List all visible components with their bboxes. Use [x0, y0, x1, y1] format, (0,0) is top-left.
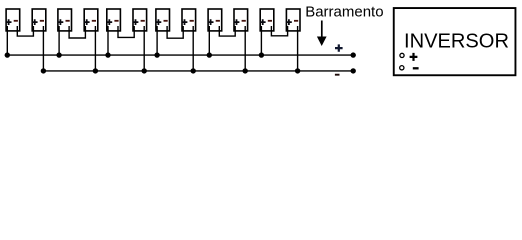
battery B4 [84, 9, 98, 31]
wire negative drop pair 6 [297, 26, 299, 71]
terminal circle - (inverter) [400, 66, 404, 70]
wire negative drop pair 5 [244, 26, 246, 71]
wire series link pair 4 [167, 26, 183, 38]
node positive bus end [351, 52, 356, 57]
battery B10 [234, 9, 248, 31]
inverter box U1 [394, 8, 516, 75]
label - (negative bus) [335, 74, 340, 76]
battery B8 [182, 9, 196, 31]
label + (positive bus) [335, 44, 343, 51]
svg-text:INVERSOR: INVERSOR [404, 31, 509, 53]
junction dot positive bus pair 2 [56, 52, 61, 57]
junction dot positive bus pair 6 [259, 52, 264, 57]
wire negative drop pair 1 [42, 26, 44, 71]
battery B2 [32, 9, 46, 31]
battery B12 [286, 9, 300, 31]
junction dot negative bus pair 1 [41, 68, 46, 73]
junction dot negative bus pair 6 [295, 68, 300, 73]
wire positive drop pair 4 [156, 26, 158, 55]
battery B1 [6, 9, 20, 31]
wire negative drop pair 4 [192, 26, 194, 71]
wire negative drop pair 2 [94, 26, 96, 71]
wire series link pair 1 [17, 26, 33, 36]
battery B7 [156, 9, 170, 31]
wire negative bus (barramento -) [43, 70, 353, 72]
battery B5 [106, 9, 120, 31]
junction dot negative bus pair 5 [243, 68, 248, 73]
label + (inverter terminal) [410, 53, 418, 61]
wire positive drop pair 5 [208, 26, 210, 55]
wire positive drop pair 6 [260, 26, 262, 55]
node negative bus end [351, 68, 356, 73]
junction dot positive bus pair 5 [207, 52, 212, 57]
battery B11 [260, 9, 274, 31]
wire positive drop pair 1 [6, 26, 8, 55]
arrow to busbar [317, 21, 327, 47]
junction dot positive bus pair 4 [154, 52, 159, 57]
junction dot positive bus pair 1 [5, 52, 10, 57]
wire series link pair 6 [271, 26, 287, 36]
wire positive drop pair 3 [107, 26, 109, 55]
svg-text:Barramento: Barramento [305, 4, 383, 21]
wire series link pair 5 [219, 26, 235, 36]
terminal circle + (inverter) [400, 53, 404, 57]
label - (inverter terminal) [413, 67, 419, 69]
wire positive bus (barramento +) [7, 54, 353, 56]
junction dot positive bus pair 3 [105, 52, 110, 57]
wire negative drop pair 3 [143, 26, 145, 71]
battery B6 [133, 9, 147, 31]
wire positive drop pair 2 [58, 26, 60, 55]
battery B9 [208, 9, 222, 31]
junction dot negative bus pair 3 [142, 68, 147, 73]
battery B3 [58, 9, 72, 31]
junction dot negative bus pair 2 [93, 68, 98, 73]
junction dot negative bus pair 4 [191, 68, 196, 73]
wire series link pair 3 [118, 26, 134, 37]
wire series link pair 2 [69, 26, 85, 38]
